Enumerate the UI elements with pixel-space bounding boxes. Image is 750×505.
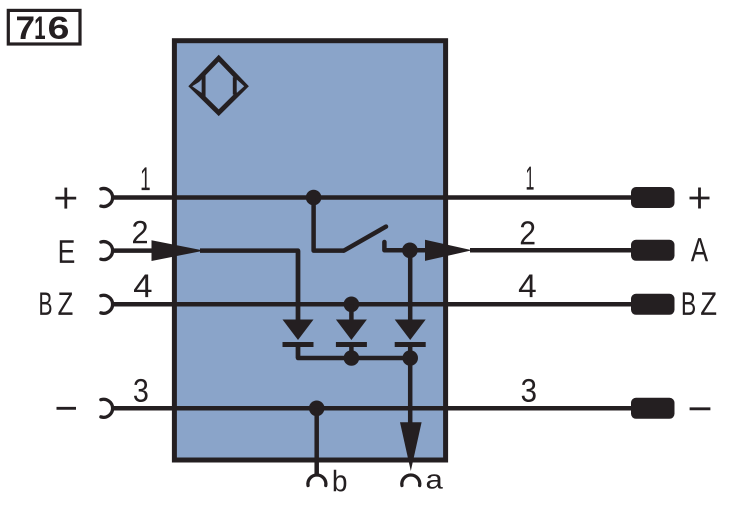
connector socket E (left) [101, 242, 113, 260]
label BZ left - Z [58, 293, 72, 315]
wire to output b [314, 408, 319, 475]
pin number 4 (left) [134, 275, 152, 298]
716 digit 1 [36, 17, 46, 40]
output arrow A [425, 240, 472, 261]
label E (left) [60, 240, 74, 263]
connector socket a (bottom) [402, 475, 420, 486]
pin number 2 (left) [133, 221, 147, 244]
terminal pin 1 (right) [631, 187, 675, 208]
output arrow a (down) [400, 422, 422, 471]
label A (right) [691, 238, 708, 261]
diode D2 anode wire [349, 304, 354, 321]
wire row 2 left (E input) [112, 248, 155, 253]
terminal pin 4 (right) [631, 294, 675, 315]
junction dot on row 1 [306, 190, 322, 206]
label BZ right - Z [701, 292, 716, 315]
pin number 3 (right) [522, 379, 536, 402]
junction dot row 4 [344, 297, 360, 313]
label a [427, 474, 443, 489]
sensor body (amplifier block) [174, 41, 445, 460]
pin number 2 (right) [521, 221, 535, 244]
input arrow E [152, 240, 205, 261]
junction dot bus D2 [344, 350, 360, 366]
type label box 716 [8, 10, 80, 44]
connector socket b (bottom) [308, 475, 326, 486]
wire row 2 inside [200, 251, 298, 321]
wire row 4 (BZ) [112, 302, 631, 307]
716 digit 6 [49, 17, 68, 40]
label b [334, 470, 347, 492]
716 digit 7 [17, 17, 34, 40]
diode D1 anode wire [296, 251, 301, 321]
diode D1 [283, 320, 314, 341]
label + (left) [55, 188, 76, 209]
junction dot bus D3 [402, 350, 418, 366]
wire row 2 right (A output) [470, 248, 631, 253]
terminal pin 3 (right) [631, 398, 675, 419]
pin number 3 (left) [134, 379, 148, 402]
diode D3 [395, 320, 426, 341]
label - (right) [690, 407, 711, 410]
switch wire from row1 dot [314, 198, 344, 251]
proximity sensor symbol (diamond) [192, 58, 246, 112]
pin number 4 (right) [519, 275, 536, 298]
switch fixed contact [384, 242, 425, 250]
connector socket - (left) [101, 399, 113, 417]
connector socket BZ (left) [101, 295, 113, 313]
label BZ right - B [683, 292, 695, 315]
cathode bus wire [298, 345, 410, 359]
wire row 3 (-) [112, 406, 631, 411]
diode D3 cathode wire [408, 345, 413, 359]
diode D3 anode wire [408, 250, 413, 321]
switch blade (NO contact) [344, 227, 386, 251]
junction dot row 2 right [402, 243, 418, 259]
connector socket + (left) [101, 189, 113, 207]
junction dot row 3 [309, 401, 325, 417]
label + (right) [690, 188, 710, 209]
pin number 1 (left) [142, 167, 150, 190]
terminal pin 2 (right) [631, 240, 675, 261]
label - (left) [57, 407, 77, 410]
diode D2 cathode wire [349, 345, 354, 359]
pin number 1 (right) [527, 167, 534, 190]
wire bus to output a [408, 358, 413, 424]
diode D2 [336, 320, 367, 341]
label BZ left - B [40, 293, 51, 315]
wire row 1 (+) [112, 195, 631, 200]
diode D1 cathode wire [296, 345, 301, 359]
